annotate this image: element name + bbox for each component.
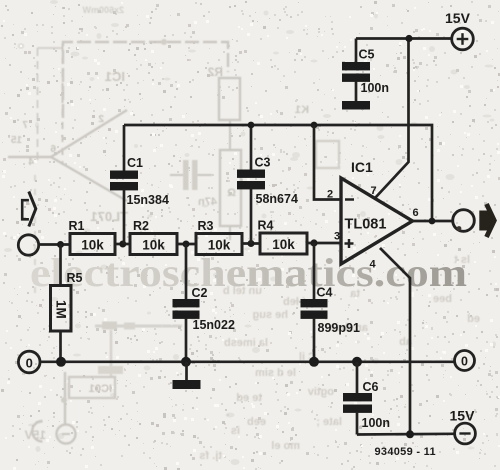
- wire R2-R3: [177, 243, 196, 246]
- resistor R4: [260, 233, 307, 254]
- ghost bottom-left box: [69, 377, 115, 398]
- wire pin 2: [314, 125, 341, 200]
- output arrow: [487, 204, 495, 237]
- svg-text:tj. fs: tj. fs: [199, 450, 222, 462]
- ghost cap near C1: [183, 160, 189, 190]
- node C3/feedback: [248, 122, 255, 129]
- wire R3-R4: [242, 242, 260, 245]
- capacitor C4: [313, 243, 316, 299]
- wire R4 to pin 3: [307, 242, 341, 245]
- feedback wire: [124, 125, 432, 221]
- svg-text:934059 - 11: 934059 - 11: [375, 446, 436, 458]
- svg-text:R1: R1: [69, 219, 85, 233]
- svg-text:C4: C4: [317, 286, 333, 300]
- svg-text:47n: 47n: [198, 196, 217, 208]
- pin 4 lead: [380, 248, 410, 435]
- ghost frame top-left: [63, 42, 228, 118]
- svg-text:2: 2: [98, 114, 104, 125]
- svg-text:C6: C6: [363, 380, 379, 394]
- svg-text:7: 7: [371, 185, 377, 197]
- svg-text:15n384: 15n384: [127, 193, 169, 207]
- svg-text:100n: 100n: [361, 81, 390, 95]
- input arrow: [29, 192, 36, 227]
- resistor R5: [59, 245, 62, 286]
- output wire: [413, 220, 453, 223]
- svg-text:TL081: TL081: [345, 217, 387, 233]
- svg-text:ogtiv: ogtiv: [307, 386, 334, 398]
- svg-text:Ω: Ω: [227, 187, 236, 199]
- ground bar C5: [342, 101, 370, 110]
- output terminal: [453, 210, 475, 232]
- minus sign pin2: [345, 198, 354, 201]
- svg-text:7: 7: [22, 120, 28, 131]
- svg-text:le d sim: le d sim: [255, 367, 296, 379]
- input terminal: [18, 235, 38, 255]
- svg-text:ed: ed: [467, 313, 480, 325]
- wire R1-R2: [115, 243, 130, 246]
- wire input to R1: [39, 243, 70, 246]
- ghost box right of C3: [316, 141, 339, 168]
- ghost dashed left edge: [62, 44, 64, 165]
- svg-text:4: 4: [28, 157, 34, 168]
- svg-text:mo el: mo el: [271, 440, 300, 452]
- svg-text:10k: 10k: [81, 238, 104, 253]
- svg-text:15V: 15V: [445, 10, 471, 26]
- svg-text:R4: R4: [258, 219, 274, 233]
- svg-text:2x600mW: 2x600mW: [82, 5, 124, 15]
- svg-text:C1: C1: [127, 156, 143, 170]
- svg-text:15V: 15V: [25, 428, 46, 442]
- svg-text:K1: K1: [295, 104, 309, 116]
- op-amp IC1: [341, 178, 413, 264]
- top supply wire: [356, 37, 452, 40]
- svg-text:10k: 10k: [272, 237, 295, 252]
- node C: [248, 240, 255, 247]
- svg-text:15n022: 15n022: [193, 318, 235, 332]
- svg-text:2: 2: [327, 189, 333, 201]
- capacitor C1: [123, 125, 126, 171]
- node pin4/-15V: [406, 430, 414, 438]
- node C5/supply: [405, 35, 412, 42]
- capacitor C5: [355, 39, 358, 63]
- svg-text:15V: 15V: [450, 408, 476, 424]
- plus sign pin3: [345, 242, 354, 245]
- svg-text:TL071: TL071: [90, 209, 128, 224]
- svg-text:eeb: eeb: [247, 416, 266, 428]
- node D: [310, 239, 317, 246]
- svg-text:C3: C3: [255, 156, 271, 170]
- ghost op-amp triangle mirrored: [51, 110, 127, 201]
- ghost text snippets bottom (mirrored print): [190, 254, 480, 462]
- svg-text:899p91: 899p91: [318, 321, 360, 335]
- svg-text:100n: 100n: [362, 416, 391, 430]
- svg-text:C5: C5: [359, 48, 375, 62]
- node B: [183, 241, 190, 248]
- svg-text:R5: R5: [67, 271, 83, 285]
- svg-text:IC01: IC01: [89, 383, 112, 395]
- svg-text:1M: 1M: [54, 300, 69, 319]
- ghost resistor box 1: [219, 78, 240, 120]
- svg-text:4: 4: [370, 259, 377, 271]
- +15V terminal: [452, 28, 474, 50]
- rail nodes: [56, 357, 66, 367]
- resistor R3: [196, 234, 242, 255]
- ghost -15V branch: [64, 372, 66, 425]
- 0 terminal right: [455, 351, 475, 371]
- svg-text:0: 0: [461, 354, 468, 368]
- svg-text:0: 0: [26, 355, 33, 370]
- resistor R2: [130, 234, 177, 255]
- node output/feedback: [429, 218, 436, 225]
- svg-text:IC1: IC1: [351, 159, 373, 175]
- svg-text:R3: R3: [198, 219, 214, 233]
- svg-text:6: 6: [50, 144, 56, 155]
- svg-text:3: 3: [334, 231, 340, 243]
- node input/R5: [57, 241, 64, 248]
- svg-text:10k: 10k: [208, 238, 231, 253]
- svg-text:is: is: [231, 425, 240, 437]
- svg-text:he sug: he sug: [253, 309, 288, 321]
- svg-text:IC1: IC1: [105, 69, 125, 84]
- ghost mid line: [95, 325, 182, 328]
- svg-text:electroschematics.com: electroschematics.com: [30, 250, 467, 295]
- -15V line: [357, 432, 455, 435]
- svg-text:late ;: late ;: [316, 416, 342, 428]
- 0 terminal left: [18, 351, 40, 373]
- capacitor C2: [185, 244, 188, 299]
- -15V terminal: [455, 423, 476, 444]
- svg-text:6: 6: [413, 207, 419, 219]
- svg-text:15: 15: [10, 135, 22, 146]
- ground bar mid: [185, 362, 188, 380]
- svg-text:58n674: 58n674: [256, 192, 298, 206]
- capacitor C3: [250, 125, 253, 170]
- node A: [119, 241, 126, 248]
- resistor R1: [70, 234, 115, 255]
- bottom rail 0V: [40, 360, 455, 363]
- svg-text:te ed: te ed: [236, 392, 262, 404]
- svg-text:C2: C2: [192, 286, 208, 300]
- capacitor C6: [356, 362, 359, 393]
- node pin2/feedback: [311, 122, 318, 129]
- ghost resistor box 2: [220, 150, 241, 226]
- svg-text:la imesb: la imesb: [224, 337, 268, 349]
- pin 7 lead: [376, 39, 409, 198]
- svg-text:10k: 10k: [142, 238, 165, 253]
- svg-text:R2: R2: [133, 219, 149, 233]
